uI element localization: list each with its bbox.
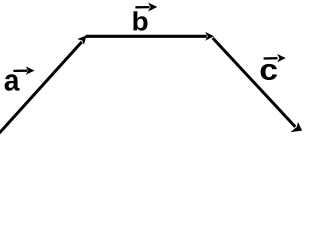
vector b arrowhead xyxy=(205,32,214,41)
vector b shaft xyxy=(86,35,207,38)
label c overline arrow xyxy=(264,54,286,62)
vector a shaft xyxy=(0,42,82,133)
label b overline arrow xyxy=(135,3,157,12)
vector a arrowhead xyxy=(77,35,86,45)
vector c arrowhead xyxy=(291,122,303,132)
label a overline arrow xyxy=(13,66,34,74)
vector c shaft xyxy=(213,38,296,127)
label a text xyxy=(5,74,20,91)
label c text xyxy=(261,64,277,80)
label b text xyxy=(133,11,147,30)
